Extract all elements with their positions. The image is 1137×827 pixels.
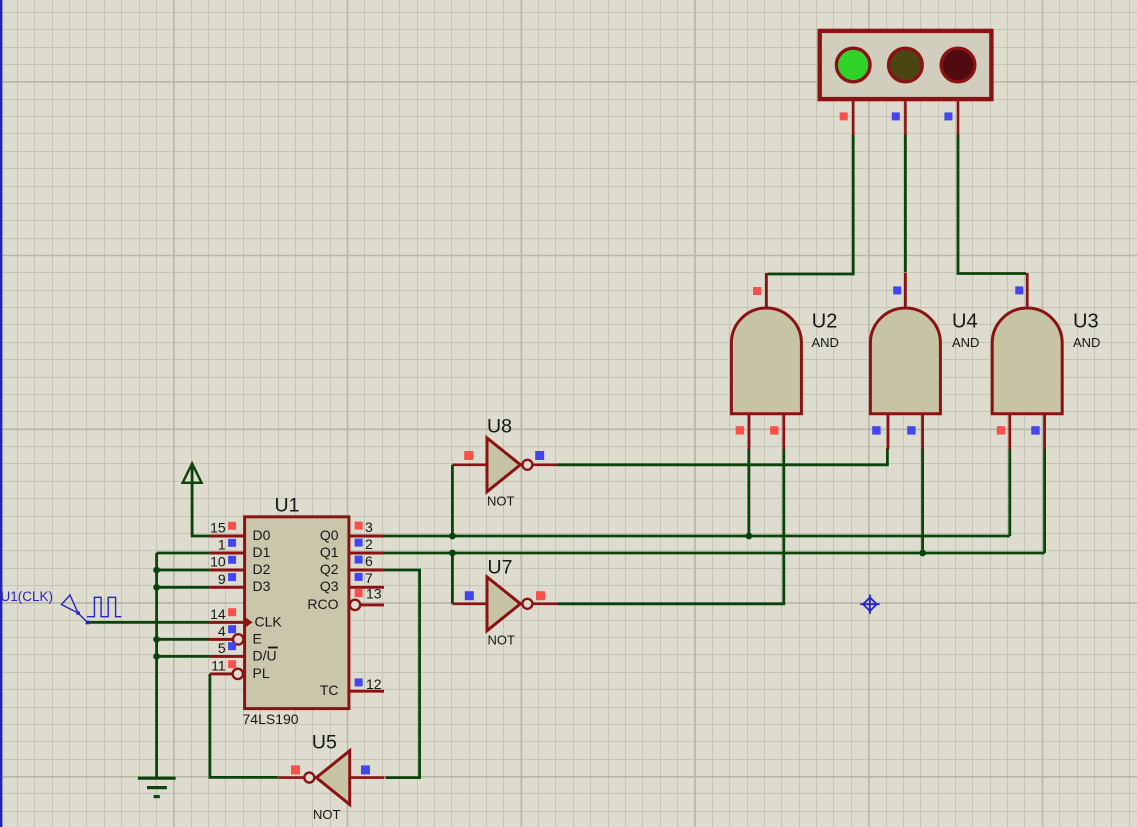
pin PL bubble [233, 669, 243, 679]
state square U1 pin 2 (low) [355, 539, 363, 547]
wire traffic-light red lamp to U3 output [958, 134, 1026, 273]
state square U4 input A (low) [872, 426, 880, 434]
wire ground rail to U1 pin D2 [157, 569, 210, 572]
svg-text:14: 14 [210, 606, 226, 622]
state square traffic amber pin (low) [892, 112, 900, 120]
wire U4 input B drop to Q1 [921, 448, 924, 553]
svg-text:NOT: NOT [487, 493, 515, 508]
pin Q1 (2) lead [349, 552, 384, 555]
state square U1 pin 3 (high) [355, 522, 363, 530]
svg-text:D1: D1 [253, 544, 271, 560]
svg-text:2: 2 [365, 536, 373, 552]
state square U4 output (low) [893, 286, 901, 294]
counter U1 74LS190 body [245, 517, 349, 709]
junction dot ground rail / D/U [153, 653, 160, 660]
svg-text:E: E [253, 630, 262, 646]
wire U8 output to U4 input A [557, 448, 887, 465]
wire traffic-light green lamp to U2 output [768, 134, 854, 274]
svg-text:AND: AND [1073, 335, 1100, 350]
wire U3 input B drop to Q1 [1043, 448, 1046, 553]
state square U2 output (high) [753, 287, 761, 295]
svg-text:3: 3 [365, 519, 373, 535]
svg-text:9: 9 [218, 571, 226, 587]
state square U5 output (high) [291, 765, 300, 774]
state square U1 pin 15 (high) [228, 522, 236, 530]
wire net Q1 horizontal bus [383, 552, 1045, 555]
pin CLK clock wedge [245, 617, 253, 628]
state square U1 pin 7 (low) [355, 573, 363, 581]
svg-text:RCO: RCO [307, 596, 338, 612]
svg-text:U2: U2 [812, 311, 838, 333]
wire ground rail vertical [155, 553, 158, 777]
svg-text:4: 4 [218, 623, 226, 639]
state square U1 pin 12 (low) [355, 678, 363, 686]
state square U1 pin 11 (high) [228, 660, 236, 668]
wire traffic-light yellow lamp to U4 output [904, 134, 907, 272]
state square U1 pin 5 (low) [228, 642, 236, 650]
wire U7 input riser from Q1 [451, 553, 454, 604]
junction dot ground rail / D3 [153, 584, 160, 591]
pin RCO (13) lead [361, 603, 384, 606]
traffic light TL1 body [820, 31, 992, 135]
svg-text:NOT: NOT [313, 807, 341, 822]
svg-text:Q1: Q1 [320, 544, 339, 560]
wire Q2 to U5 input [383, 570, 420, 778]
and-gate U4 [870, 273, 940, 449]
state square U2 input A (high) [736, 426, 744, 434]
state square U1 pin 1 (low) [228, 539, 236, 547]
state square U3 output (low) [1015, 286, 1023, 294]
svg-text:Q0: Q0 [320, 527, 339, 543]
state square U5 input (low) [361, 765, 370, 774]
junction dot ground rail / E [153, 636, 160, 643]
not-gate U5 (mirrored, output bubble on left) [279, 751, 385, 805]
svg-text:U4: U4 [952, 311, 978, 333]
state square U7 input (low) [465, 591, 474, 600]
wire ground rail to U1 pin D/U [157, 655, 210, 658]
and-gate U3 [992, 273, 1062, 449]
not-gate U8 [452, 438, 558, 492]
svg-text:U5: U5 [312, 731, 337, 753]
svg-text:D2: D2 [253, 561, 271, 577]
traffic light amber lamp (off) [889, 48, 923, 82]
pin D/U (5) lead [210, 655, 245, 658]
junction dot ground rail / D2 [153, 567, 160, 574]
svg-text:U1: U1 [275, 494, 300, 516]
svg-text:TC: TC [320, 682, 339, 698]
sheet border left edge [0, 0, 2, 827]
svg-text:74LS190: 74LS190 [243, 711, 299, 727]
wire U7 output to U2 input B [557, 448, 784, 604]
state square U8 output (low) [535, 451, 544, 460]
pin Q2 (6) lead [349, 569, 384, 572]
pin PL (11) lead [210, 672, 232, 675]
pin D2 (10) lead [210, 569, 245, 572]
svg-text:U8: U8 [487, 415, 512, 437]
wire ground rail to U1 pin D3 [157, 586, 210, 589]
state square U1 pin 9 (low) [228, 573, 236, 581]
junction dot Q1/U4 input B [919, 550, 926, 557]
svg-text:U3: U3 [1073, 311, 1099, 333]
svg-text:1: 1 [218, 537, 226, 553]
ground symbol [138, 778, 176, 796]
svg-text:12: 12 [366, 676, 382, 692]
state square U4 input B (low) [907, 426, 915, 434]
state square U1 pin 14 (high) [228, 608, 236, 616]
wire U1 pin PL loop to U5 output [210, 674, 278, 778]
wire U3 input A drop to Q0 [1008, 448, 1011, 536]
junction dot Q1/U7 [449, 550, 456, 557]
wire ground rail to U1 pin D1 [157, 552, 210, 555]
svg-text:7: 7 [365, 570, 373, 586]
pin D3 (9) lead [210, 586, 245, 589]
pin D1 (1) lead [210, 552, 245, 555]
svg-text:13: 13 [366, 586, 382, 602]
junction dot Q0/U2 input A [746, 533, 753, 540]
not-gate U7 [452, 577, 558, 631]
state square U1 pin 13 (high) [355, 589, 363, 597]
clock generator node U1(CLK) [1, 589, 122, 625]
state square traffic red pin (low) [944, 112, 952, 120]
svg-text:Q2: Q2 [320, 561, 339, 577]
pin name D/U with overbar [253, 647, 278, 663]
svg-text:Q3: Q3 [320, 578, 339, 594]
svg-text:D0: D0 [253, 527, 271, 543]
and-gate U2 [731, 273, 801, 449]
svg-text:10: 10 [210, 554, 226, 570]
state square traffic green pin (high) [840, 112, 848, 120]
state square U1 pin 4 (low) [228, 625, 236, 633]
pin Q0 (3) lead [349, 535, 384, 538]
pin CLK (14) lead [209, 621, 245, 624]
svg-text:D/U: D/U [253, 647, 277, 663]
pin RCO bubble [350, 600, 360, 610]
svg-text:6: 6 [365, 553, 373, 569]
wire clock source to U1 pin CLK [87, 621, 209, 624]
pin Q3 (7) lead [349, 586, 384, 589]
pin TC (12) lead [349, 690, 384, 693]
pin D0 (15) lead [210, 535, 245, 538]
wire U2 input A drop to Q0 [748, 448, 751, 536]
state square U2 input B (high) [770, 426, 778, 434]
state square U3 input B (low) [1031, 426, 1039, 434]
logic-state squares [228, 112, 1040, 774]
origin marker [860, 595, 879, 614]
svg-text:15: 15 [210, 520, 226, 536]
svg-text:CLK: CLK [255, 613, 283, 629]
wire ground rail to U1 pin E [157, 638, 211, 641]
state square U1 pin 10 (low) [228, 556, 236, 564]
state square U3 input A (high) [997, 426, 1005, 434]
traffic light red lamp (off) [941, 48, 975, 82]
state square U1 pin 6 (low) [355, 556, 363, 564]
wire power rail to U1 pin D0 [192, 469, 210, 536]
state square U8 input (high) [464, 451, 473, 460]
junction dot Q0/U8 [449, 533, 456, 540]
svg-text:U7: U7 [488, 556, 513, 578]
wire U8 input drop to Q0 [451, 465, 454, 536]
svg-text:AND: AND [952, 335, 979, 350]
svg-text:11: 11 [211, 658, 226, 674]
svg-text:D3: D3 [253, 578, 271, 594]
pin E (4) lead [210, 638, 233, 641]
svg-text:PL: PL [253, 665, 270, 681]
power symbol (logic high) [183, 464, 202, 483]
wire net Q0 horizontal bus [383, 535, 1010, 538]
pin E bubble [233, 634, 243, 644]
svg-text:NOT: NOT [488, 633, 516, 648]
svg-text:AND: AND [812, 335, 839, 350]
svg-text:U1(CLK): U1(CLK) [1, 589, 54, 604]
traffic light green lamp (on) [836, 48, 870, 82]
state square U7 output (high) [536, 591, 545, 600]
svg-text:5: 5 [218, 640, 226, 656]
